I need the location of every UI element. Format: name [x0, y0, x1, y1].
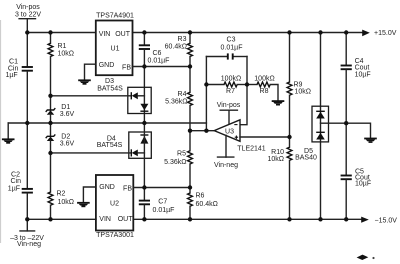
- svg-text:R7: R7: [226, 88, 235, 95]
- svg-text:OUT: OUT: [115, 31, 131, 38]
- svg-text:100kΩ: 100kΩ: [221, 75, 241, 82]
- svg-text:U1: U1: [111, 45, 120, 52]
- logo mark bottom right: [357, 255, 375, 260]
- op-amp U2 TPS7A3001 regulator box: [96, 175, 134, 239]
- svg-text:0.01µF: 0.01µF: [221, 45, 243, 52]
- svg-text:R5: R5: [177, 151, 186, 158]
- capacitor C1: [5, 33, 32, 124]
- svg-text:−15.0V: −15.0V: [375, 217, 398, 224]
- wire FB1 vertical into D3: [143, 67, 145, 124]
- ground left: [2, 138, 15, 143]
- svg-text:D1: D1: [61, 104, 70, 111]
- wire C3 right / inverting input riser: [240, 57, 247, 125]
- node -15.0V output arrow: [361, 217, 397, 225]
- wire U1 GND to ground: [85, 64, 96, 79]
- svg-text:BAT54S: BAT54S: [97, 142, 123, 149]
- svg-text:BAT54S: BAT54S: [97, 86, 123, 93]
- svg-text:10µF: 10µF: [355, 181, 371, 188]
- capacitor C6: [139, 33, 170, 67]
- svg-text:C3: C3: [227, 36, 236, 43]
- svg-text:C7: C7: [158, 199, 167, 206]
- svg-text:10kΩ: 10kΩ: [58, 51, 75, 58]
- svg-text:5.36kΩ: 5.36kΩ: [164, 159, 186, 166]
- resistor R3: [165, 33, 193, 67]
- svg-text:FB: FB: [123, 185, 132, 192]
- wire non-inverting input to R9/R10: [240, 136, 290, 138]
- capacitor C5: [341, 123, 372, 219]
- node Vin-pos op-amp supply: [217, 102, 241, 125]
- wire U1 FB line: [133, 66, 191, 68]
- svg-text:FB: FB: [122, 65, 131, 72]
- wire left edge artifact: [0, 20, 2, 243]
- node Vin-neg input terminal: [10, 219, 44, 248]
- zener D2: [46, 123, 75, 153]
- diode D5 BAS40: [295, 33, 328, 220]
- capacitor C2: [8, 123, 33, 219]
- resistor R8: [247, 75, 278, 100]
- svg-text:C6: C6: [153, 50, 162, 57]
- svg-text:TLE2141: TLE2141: [237, 145, 266, 152]
- svg-text:GND: GND: [99, 62, 115, 69]
- resistor R4: [165, 67, 192, 151]
- ground R8: [272, 100, 285, 105]
- node +15.0V output arrow: [362, 30, 397, 37]
- resistor R6: [188, 188, 218, 220]
- node Vin-pos input terminal: [15, 4, 41, 32]
- wire -15V rail from U2 OUT: [133, 218, 361, 220]
- svg-text:3.6V: 3.6V: [60, 111, 75, 118]
- svg-text:TPS7A4901: TPS7A4901: [96, 12, 134, 19]
- capacitor C3: [206, 36, 247, 59]
- resistor R9: [287, 33, 311, 138]
- svg-text:VIN: VIN: [99, 31, 111, 38]
- node Vin-neg op-amp supply: [214, 135, 238, 169]
- svg-text:OUT: OUT: [118, 216, 134, 223]
- svg-text:U2: U2: [110, 200, 119, 207]
- svg-text:Vin-pos: Vin-pos: [217, 102, 241, 109]
- resistor R2: [48, 153, 74, 219]
- op-amp U3 TLE2141: [214, 120, 266, 153]
- resistor R10: [267, 137, 291, 219]
- svg-text:10µF: 10µF: [355, 72, 371, 79]
- svg-text:1µF: 1µF: [8, 185, 20, 192]
- svg-text:R8: R8: [260, 88, 269, 95]
- svg-text:10kΩ: 10kΩ: [295, 89, 312, 96]
- wire +15V rail from U1 OUT: [133, 32, 363, 34]
- svg-text:3.6V: 3.6V: [60, 140, 75, 147]
- svg-text:+15.0V: +15.0V: [374, 30, 397, 37]
- svg-text:R1: R1: [58, 43, 67, 50]
- svg-text:VIN: VIN: [99, 216, 111, 223]
- svg-text:GND: GND: [99, 184, 115, 191]
- resistor R1: [48, 33, 74, 96]
- wire op-amp output: [190, 130, 214, 132]
- capacitor C4: [341, 33, 371, 124]
- svg-text:D3: D3: [105, 78, 114, 85]
- svg-text:Vin-neg: Vin-neg: [17, 241, 41, 248]
- svg-text:60.4kΩ: 60.4kΩ: [165, 44, 187, 51]
- wire D5 mid tap to right ground: [321, 123, 371, 137]
- svg-text:10kΩ: 10kΩ: [58, 199, 75, 206]
- svg-text:R3: R3: [178, 36, 187, 43]
- wire mid ground rail: [8, 122, 206, 124]
- svg-text:R4: R4: [178, 91, 187, 98]
- svg-text:BAS40: BAS40: [295, 154, 317, 161]
- ground U2: [77, 202, 90, 207]
- svg-text:60.4kΩ: 60.4kΩ: [196, 201, 218, 208]
- ground right: [364, 138, 377, 143]
- wire mid rail drop to op-amp output node: [205, 57, 207, 131]
- ground U1: [78, 79, 91, 84]
- svg-text:100kΩ: 100kΩ: [254, 75, 274, 82]
- svg-text:10kΩ: 10kΩ: [267, 156, 284, 163]
- op-amp U1 TPS7A4901 regulator box: [96, 12, 134, 75]
- resistor R7: [206, 75, 247, 95]
- svg-text:3 to 22V: 3 to 22V: [15, 11, 41, 18]
- svg-text:TPS7A3001: TPS7A3001: [96, 232, 134, 239]
- svg-text:Vin-neg: Vin-neg: [214, 162, 238, 169]
- svg-text:R6: R6: [196, 193, 205, 200]
- zener D1: [46, 96, 75, 123]
- svg-text:0.01µF: 0.01µF: [148, 58, 170, 65]
- svg-text:Cin: Cin: [10, 178, 21, 185]
- svg-text:1µF: 1µF: [5, 72, 17, 79]
- diode D4 BAT54S: [51, 123, 152, 188]
- svg-text:0.01µF: 0.01µF: [153, 207, 175, 214]
- diode D3 BAT54S: [51, 78, 152, 113]
- svg-text:U3: U3: [225, 128, 234, 135]
- wire U2 GND to ground: [83, 187, 96, 202]
- capacitor C7: [139, 188, 175, 220]
- wire top input rail to U1 VIN: [27, 32, 96, 34]
- svg-text:R2: R2: [57, 191, 66, 198]
- resistor R5: [164, 151, 192, 188]
- svg-text:Cout: Cout: [355, 64, 370, 71]
- svg-text:D2: D2: [61, 133, 70, 140]
- wire bottom rail left (Vin-neg to U2 VIN): [27, 218, 96, 220]
- svg-text:Vin-pos: Vin-pos: [16, 4, 40, 11]
- wire U2 FB line: [133, 187, 190, 189]
- svg-text:5.36kΩ: 5.36kΩ: [165, 98, 187, 105]
